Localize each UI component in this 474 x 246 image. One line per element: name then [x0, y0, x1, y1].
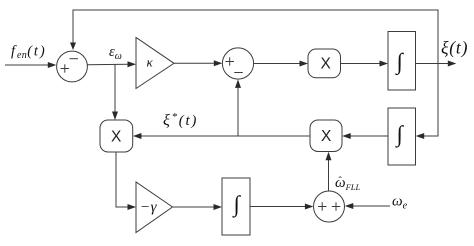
integrator I1 [388, 32, 416, 91]
wire input f_en(t) into summer S1 [5, 62, 56, 68]
gain block K (triangle) [136, 38, 174, 89]
summing junction S1 [57, 51, 88, 82]
svg-text:X: X [321, 128, 332, 145]
wire S3 up into X2 [326, 152, 332, 191]
svg-text:fen(t): fen(t) [11, 44, 47, 62]
wire S2 to multiplier X1 [254, 61, 308, 67]
wire node A down into X3 [112, 65, 118, 121]
wire feedback from node C along top into S1 [70, 10, 438, 64]
integrator I3 [222, 178, 250, 235]
gain block G (triangle -gamma) [136, 182, 173, 233]
summing junction S2 [222, 48, 253, 79]
multiplier X2 [310, 120, 342, 152]
svg-text:ξ*(t): ξ*(t) [163, 111, 198, 129]
wire X3 down and right into gain G [116, 152, 136, 210]
wire node C down into integrator I2 [416, 64, 438, 140]
wire gain G to integrator I3 [173, 204, 223, 210]
multiplier X1 [308, 49, 341, 78]
wire X1 to integrator I1 [341, 61, 389, 67]
multiplier X3 [100, 120, 133, 152]
svg-text:X: X [321, 56, 332, 73]
wire omega_e input into S3 [345, 203, 390, 209]
svg-text:κ: κ [147, 55, 154, 70]
wire I3 to summer S3 [250, 204, 313, 210]
wire S1 to gain K with branch at node A [87, 61, 136, 67]
wire I2 to multiplier X2 [342, 133, 388, 139]
wire I1 to output xi(t) through node C [416, 61, 457, 67]
wire X2 to multiplier X3 with branch at node B [133, 133, 310, 139]
wire from node B up into S2 [235, 79, 241, 136]
svg-text:ξ(t): ξ(t) [441, 38, 468, 58]
svg-text:−γ: −γ [140, 200, 158, 216]
integrator I2 [388, 108, 416, 165]
summing junction S3 [314, 191, 345, 222]
wire gain K to summer S2 [174, 60, 222, 66]
svg-text:X: X [111, 129, 122, 146]
